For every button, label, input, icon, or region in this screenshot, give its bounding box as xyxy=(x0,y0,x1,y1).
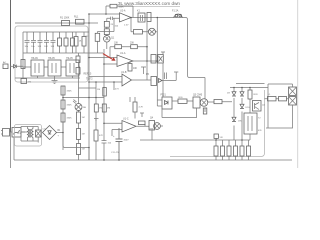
fuse FU xyxy=(12,128,21,138)
supply stub T xyxy=(162,72,178,81)
zener ZD1 xyxy=(232,117,236,121)
resistor R3 divider upper xyxy=(104,21,109,27)
resistor R27 xyxy=(94,130,98,141)
svg-text:1M: 1M xyxy=(82,134,85,136)
wire Q4 down xyxy=(152,126,163,140)
svg-text:1M: 1M xyxy=(82,149,85,151)
capacitor C9 xyxy=(21,79,27,84)
wire regulator bottoms xyxy=(15,76,80,78)
ground xyxy=(52,78,58,83)
watermark title xyxy=(118,1,180,6)
wire top rail y23 xyxy=(15,22,98,24)
resistor R22 xyxy=(61,113,65,122)
node REF label xyxy=(84,74,93,76)
resistor R32 xyxy=(203,108,207,114)
op-amp U1C xyxy=(122,121,136,133)
resistor R45 xyxy=(248,140,250,160)
transistor Q2 xyxy=(253,101,262,112)
wire y84 top xyxy=(236,84,293,129)
svg-text:U1-A: U1-A xyxy=(120,52,126,55)
capacitor CX1 xyxy=(36,130,42,137)
transistor Q5 xyxy=(193,97,200,108)
svg-text:RL1: RL1 xyxy=(74,16,79,19)
test point T1 xyxy=(94,119,99,122)
svg-text:Q5 C945: Q5 C945 xyxy=(193,95,203,97)
rail x250 xyxy=(249,88,251,114)
resistor R20 xyxy=(61,86,65,95)
svg-text:78L09: 78L09 xyxy=(31,57,38,60)
resistor R31 xyxy=(214,100,222,104)
wire T1 top xyxy=(292,84,294,87)
resistor R33 xyxy=(248,90,252,99)
rail x157 xyxy=(156,18,158,101)
relay box K1 xyxy=(138,13,145,22)
diode D8 xyxy=(232,92,236,96)
rail x242 xyxy=(241,88,243,141)
supply stub xyxy=(161,52,165,55)
svg-text:U2-A: U2-A xyxy=(120,10,126,13)
wire op-amp output y17.5 xyxy=(131,18,205,99)
resistor R43 xyxy=(235,140,237,160)
regulator U5 78L05 xyxy=(48,60,61,76)
regulator U4 78L09 xyxy=(31,60,44,76)
resistor R8 xyxy=(115,45,122,49)
svg-text:1M: 1M xyxy=(107,108,110,110)
wire divider xyxy=(106,27,108,36)
wire input bus y31.5 xyxy=(98,31,115,33)
capacitor C4 xyxy=(31,32,36,53)
resistor R9 xyxy=(131,45,138,49)
svg-text:10K: 10K xyxy=(114,43,119,45)
op-amp U1B xyxy=(122,74,132,86)
wire y88 y97 xyxy=(63,82,122,98)
capacitor C12 electrolytic xyxy=(116,128,123,160)
resistor R14b on rail78 xyxy=(76,68,80,75)
inductor L1 xyxy=(268,97,277,101)
svg-text:330K: 330K xyxy=(67,118,73,120)
wire U1C out xyxy=(136,124,149,126)
transistor Q3 xyxy=(151,55,156,64)
rail x89 xyxy=(88,14,90,160)
svg-text:2.5V: 2.5V xyxy=(124,25,129,27)
connector plug xyxy=(3,129,10,137)
diode D9 xyxy=(240,92,244,96)
svg-text:1M: 1M xyxy=(82,117,85,119)
resistor R2 xyxy=(95,33,100,41)
resistor R12 xyxy=(72,32,74,53)
svg-text:330K: 330K xyxy=(67,105,73,107)
resistor R42 xyxy=(228,140,230,160)
relay RL1 on rail xyxy=(76,19,85,24)
svg-text:10K: 10K xyxy=(133,68,138,70)
transformer T2 xyxy=(244,113,257,134)
wire T1 bottom return xyxy=(266,105,293,128)
rail x78 xyxy=(78,53,80,160)
svg-text:100K: 100K xyxy=(119,7,125,9)
svg-text:18V: 18V xyxy=(238,121,242,123)
svg-text:20K: 20K xyxy=(130,43,135,45)
wire opto left xyxy=(157,100,162,106)
choke L3 xyxy=(28,129,29,138)
resistor R16 xyxy=(75,32,77,53)
resistor R24 xyxy=(77,144,81,155)
svg-text:47K: 47K xyxy=(99,135,103,137)
svg-text:400V: 400V xyxy=(124,140,130,142)
op-amp U2 xyxy=(120,13,132,22)
bridge rectifier B1 xyxy=(43,126,57,140)
wire chain right xyxy=(208,101,232,103)
svg-text:79L05: 79L05 xyxy=(66,57,73,60)
resistor R26b xyxy=(102,104,106,112)
wire input y14 xyxy=(89,13,120,15)
page left border xyxy=(10,0,12,132)
capacitor C7 xyxy=(51,32,56,53)
resistor R21 xyxy=(61,100,65,109)
symbol above bus xyxy=(214,134,218,138)
opto drive box xyxy=(158,55,164,64)
rail x130 mid xyxy=(129,97,131,102)
wire lower opamp inputs xyxy=(104,123,122,136)
wire left return xyxy=(13,137,15,160)
resistor R4 divider lower xyxy=(104,29,109,35)
regulator row wire xyxy=(23,66,80,68)
resistor R17 xyxy=(83,32,85,53)
resistor R15 xyxy=(129,61,131,64)
wire filter joins xyxy=(21,127,38,142)
optocoupler U3 xyxy=(162,97,172,109)
red annotation arrow xyxy=(103,54,116,61)
rail x163 xyxy=(162,63,164,97)
rail x63 xyxy=(62,86,64,150)
transistor Q1 xyxy=(104,36,111,43)
resistor R40 xyxy=(215,140,217,160)
resistor R11 xyxy=(65,32,67,53)
resistor R6 xyxy=(147,13,151,22)
resistor R23 xyxy=(77,129,81,140)
svg-text:4.7K: 4.7K xyxy=(139,107,144,109)
svg-text:3L www.3lianXXXXX.com dwn: 3L www.3lianXXXXX.com dwn xyxy=(118,1,180,6)
svg-text:REF2.5: REF2.5 xyxy=(84,74,93,76)
wire output chain xyxy=(265,98,289,100)
svg-text:AC: AC xyxy=(3,61,6,64)
wire cap junction xyxy=(113,18,115,31)
svg-text:GND: GND xyxy=(149,129,154,131)
rail x147 xyxy=(146,18,148,81)
svg-text:C11 470: C11 470 xyxy=(111,152,120,154)
inductor L2 xyxy=(279,97,287,101)
fuse F1 xyxy=(175,14,178,17)
wire left input U1A xyxy=(89,49,117,98)
wire opto out xyxy=(172,100,193,102)
inner cap bank bus xyxy=(23,32,103,78)
resistor R25 xyxy=(94,104,98,112)
connector AC in xyxy=(3,64,8,69)
wire feedback row xyxy=(110,47,147,61)
box lower right xyxy=(170,90,265,157)
svg-text:1M: 1M xyxy=(99,108,102,110)
diode D10 xyxy=(240,104,244,108)
svg-text:78L05: 78L05 xyxy=(48,57,55,60)
label GND xyxy=(149,129,154,131)
svg-text:1M: 1M xyxy=(97,89,100,91)
svg-text:F1 2A: F1 2A xyxy=(172,10,179,13)
capacitor C3 xyxy=(25,32,30,53)
bus y160 xyxy=(14,159,292,161)
relay coil bars xyxy=(165,73,167,80)
EMI filter box xyxy=(15,125,42,147)
svg-text:P521: P521 xyxy=(161,95,167,97)
supply stub2 xyxy=(140,113,144,117)
resistor R13 xyxy=(21,60,25,69)
varistor RV1 xyxy=(148,28,155,35)
rail x96 xyxy=(95,82,97,160)
lamp LP1 xyxy=(75,104,82,111)
resistor R14a on rail78 xyxy=(76,56,80,63)
capacitor C6 xyxy=(44,32,49,53)
resistor R26 xyxy=(103,88,107,97)
wire bridge out xyxy=(57,122,90,160)
resistor R41 xyxy=(222,140,224,160)
resistor R7 row xyxy=(131,18,148,32)
svg-text:VR: VR xyxy=(220,137,223,139)
svg-text:330K: 330K xyxy=(67,91,73,93)
resistor R10 xyxy=(59,32,61,53)
svg-text:R1 100K: R1 100K xyxy=(60,17,70,20)
regulator U6 79L05 xyxy=(66,60,79,76)
supply stub U1B xyxy=(141,67,146,74)
wire feedback loop xyxy=(106,6,133,18)
capacitor C2 input xyxy=(107,17,120,22)
resistor R22b xyxy=(77,112,81,123)
resistor R5 feedback xyxy=(110,4,117,8)
wire U1B inputs xyxy=(89,77,151,91)
capacitor C10 xyxy=(102,141,107,143)
resistor R28 xyxy=(139,121,146,125)
svg-text:U1-C: U1-C xyxy=(123,118,129,121)
capacitor C5 xyxy=(38,32,43,53)
rail x104 xyxy=(103,98,105,161)
resistor R29 xyxy=(133,102,137,112)
op-amp U1A xyxy=(117,55,133,67)
resistor R1 on rail xyxy=(62,21,70,26)
diode D5 cluster xyxy=(151,77,157,86)
resistor R44 xyxy=(241,140,243,160)
resistor R30 xyxy=(178,99,187,103)
svg-text:TL072: TL072 xyxy=(86,79,93,81)
diode D1 xyxy=(10,65,14,67)
bus top right y87.5 xyxy=(230,87,268,89)
transformer T1 xyxy=(289,87,297,96)
svg-text:U1-B: U1-B xyxy=(121,71,127,74)
page right border xyxy=(297,0,299,168)
transistor Q4 xyxy=(149,121,155,131)
wire U1A out xyxy=(133,60,157,62)
wire feedback loop xyxy=(162,108,205,118)
bus y140 xyxy=(140,139,250,141)
group box upper-left xyxy=(15,26,88,82)
svg-text:NE: NE xyxy=(83,107,87,109)
rail x234 xyxy=(233,88,235,141)
